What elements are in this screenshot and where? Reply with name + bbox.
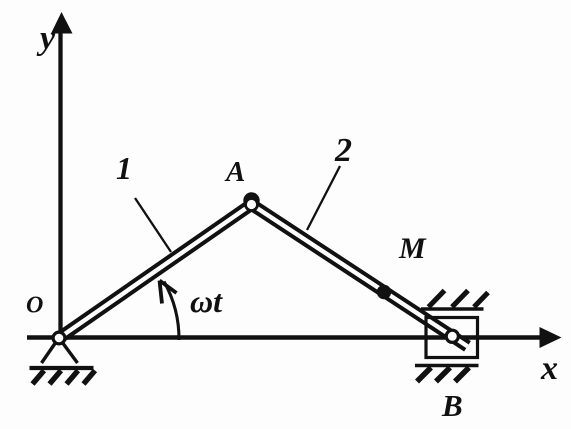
svg-text:O: O [26, 293, 43, 319]
svg-text:1: 1 [116, 150, 132, 186]
svg-text:B: B [441, 388, 463, 423]
svg-text:y: y [36, 20, 56, 57]
svg-text:A: A [224, 156, 245, 188]
svg-text:ωt: ωt [190, 283, 223, 319]
svg-text:M: M [398, 232, 427, 265]
svg-text:2: 2 [334, 132, 352, 169]
svg-text:x: x [540, 350, 558, 387]
